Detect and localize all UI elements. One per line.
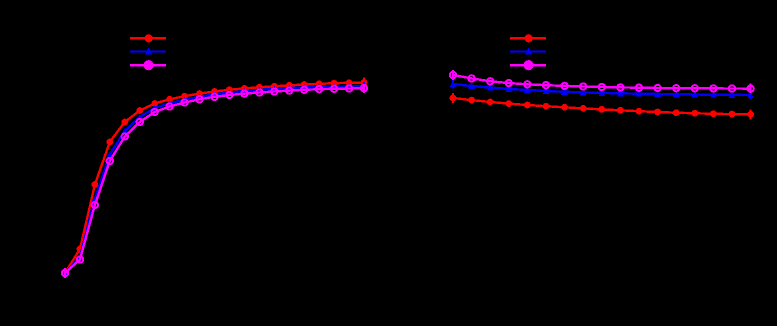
left panel blue series (curve + error bars + markers) (62, 82, 368, 278)
legend right red entry: errorbar line + filled circle (510, 34, 546, 42)
left panel red series (curve + error bars + markers) (62, 78, 368, 278)
right panel magenta series (curve + error bars + open-circle markers) (450, 70, 754, 93)
legend left magenta entry: errorbar line + filled circle (130, 60, 166, 70)
legend right blue entry: errorbar line + filled triangle (510, 48, 546, 55)
legend left red entry: errorbar line + filled circle (130, 34, 166, 42)
right panel red series (curve + error bars + markers) (450, 93, 754, 119)
left panel magenta series (curve + error bars + open-circle markers) (62, 84, 367, 278)
legend right magenta entry: errorbar line + filled circle (510, 60, 546, 70)
right panel blue series (curve + error bars + markers) (450, 80, 754, 100)
legend left blue entry: errorbar line + filled triangle (130, 48, 166, 55)
